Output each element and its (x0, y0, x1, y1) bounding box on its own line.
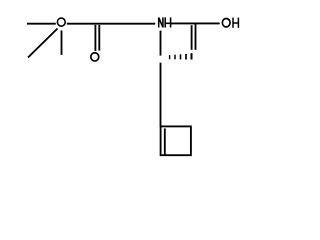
hashed wedge bond C* to C3 (169, 53, 193, 59)
wire methyl CH3 (diagonal) of tert-butyl (28, 29, 58, 58)
cyclobutene ring double bond inner line (164, 128, 166, 155)
wire O-C(=O)-N ester chain bond (67, 23, 155, 25)
wire C=O double bond main line (94, 25, 96, 51)
wire N-C* bond (160, 31, 162, 56)
atom label O (ester oxygen) (57, 18, 65, 26)
wire C*-ring bond (160, 63, 162, 127)
wire methyl CH3 (vertical) of tert-butyl (61, 31, 63, 55)
wire methyl CH3 (horizontal) of tert-butyl (27, 23, 56, 25)
atom label NH (159, 17, 171, 27)
atom label O (carbonyl oxygen) (91, 53, 99, 61)
wire C=O double bond second line (98, 25, 100, 51)
wire NH-C=C-OH top bond (171, 22, 220, 24)
atom label OH (222, 18, 238, 28)
cyclobutene ring (161, 126, 191, 155)
wire C=C double bond inner line (191, 25, 193, 50)
wire C=C double bond main line (195, 23, 197, 50)
